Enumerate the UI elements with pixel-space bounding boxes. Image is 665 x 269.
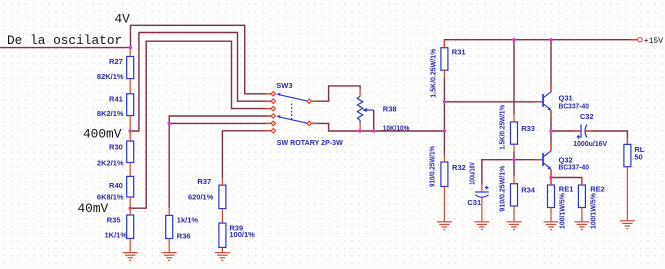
pin R34 bottom	[513, 206, 515, 213]
switch contact row5	[271, 121, 275, 125]
wire R33 feed from rail	[513, 40, 515, 115]
wire Q32 emitter to RE1 RE2	[550, 169, 552, 185]
junction Q32 emitter node	[549, 176, 552, 179]
switch contact common2	[307, 121, 311, 125]
arrow wiper pole2	[276, 115, 280, 118]
svg-text:6K8/1%: 6K8/1%	[97, 192, 124, 201]
switch contact row2	[271, 99, 275, 103]
pin SW3 row2 stub	[266, 100, 271, 102]
wire SW3 row6 to R37	[222, 131, 271, 178]
power rail +15V	[444, 40, 637, 48]
pin RE2 top	[581, 178, 583, 186]
pin R32 bottom	[443, 187, 445, 195]
junction 40mV node	[129, 207, 132, 210]
pin R36 bottom	[168, 239, 170, 253]
svg-text:620/1%: 620/1%	[188, 193, 214, 202]
wire R38 wiper to rail	[373, 110, 375, 131]
pin R31 top	[443, 40, 445, 48]
pin R38 top	[359, 89, 361, 96]
ground under RE2	[574, 222, 589, 230]
switch gang dashed link	[291, 104, 293, 121]
ground under R36	[162, 253, 177, 261]
terminal +15V	[638, 38, 642, 42]
svg-text:100/1W/5%: 100/1W/5%	[557, 193, 566, 229]
wire Q32 base with C31 branch	[482, 160, 542, 185]
wire Q31 emitter to Q32 collector	[550, 110, 552, 151]
svg-text:RE2: RE2	[590, 185, 605, 194]
svg-text:910/0.25W/1%: 910/0.25W/1%	[498, 165, 507, 211]
svg-text:R34: R34	[521, 186, 536, 195]
svg-text:R37: R37	[197, 177, 211, 186]
pin R27 bottom to R41	[129, 79, 131, 94]
svg-text:R31: R31	[452, 48, 466, 57]
potentiometer R38 zigzag	[357, 96, 362, 123]
pin SW3 row3 stub	[266, 108, 271, 110]
wire Q31 base	[444, 101, 542, 103]
junction rail to R31 R32 column	[443, 129, 446, 132]
pin C31 top	[481, 185, 483, 192]
svg-text:SW3: SW3	[276, 81, 292, 90]
wire R31 R32 column	[443, 78, 445, 155]
wire SW3 common2 to attenuator rail	[312, 123, 445, 131]
ground under R34	[507, 222, 522, 230]
pin R39 bottom	[221, 247, 223, 252]
wire SW3 row5 to R36 branch	[169, 122, 271, 124]
pin R35 top	[129, 208, 131, 215]
switch wiper pole1	[279, 95, 307, 101]
svg-text:RE1: RE1	[559, 185, 574, 194]
wire 4V tap to SW3 row1	[131, 25, 271, 94]
svg-text:82K/1%: 82K/1%	[97, 72, 124, 81]
resistor RE2	[578, 185, 585, 208]
svg-text:R33: R33	[521, 124, 535, 133]
switch contact common1	[307, 99, 311, 103]
svg-text:R35: R35	[107, 215, 121, 224]
svg-text:R32: R32	[452, 163, 466, 172]
wire RE1 to ground	[550, 215, 552, 222]
junction R31 bottom base node	[443, 100, 446, 103]
svg-text:R36: R36	[177, 231, 191, 240]
resistor R36	[166, 215, 173, 238]
switch contact row3	[271, 106, 275, 110]
pin R31 bottom	[443, 70, 445, 77]
svg-text:400mV: 400mV	[83, 127, 122, 142]
svg-text:C32: C32	[580, 112, 594, 121]
ground under R35	[123, 253, 138, 261]
ground under C31	[474, 222, 489, 230]
svg-text:BC337-40: BC337-40	[559, 162, 589, 171]
switch wiper pole2	[279, 117, 307, 123]
pin RE1 top	[550, 178, 552, 186]
pin RL bottom	[626, 167, 628, 174]
svg-text:R40: R40	[109, 181, 123, 190]
pin +15V stub	[630, 39, 637, 41]
wire RL to ground	[626, 174, 628, 221]
pin SW3 row4 stub	[266, 115, 271, 117]
resistor R37	[219, 185, 226, 209]
svg-text:1.5K/0.25W/1%: 1.5K/0.25W/1%	[498, 105, 507, 150]
pin R33 top	[513, 115, 515, 122]
R38 wiper arm	[366, 109, 374, 111]
svg-text:8K2/1%: 8K2/1%	[97, 109, 124, 118]
svg-text:100u/16V: 100u/16V	[467, 162, 476, 185]
pin R34 top	[513, 176, 515, 183]
svg-text:1k/1%: 1k/1%	[177, 215, 199, 224]
svg-text:1.5K/0.25W/1%: 1.5K/0.25W/1%	[428, 48, 437, 97]
pin Q31 collector stub	[550, 85, 552, 92]
svg-text:SW ROTARY 2P-3W: SW ROTARY 2P-3W	[277, 138, 344, 147]
wire C32 right to RL	[586, 131, 627, 144]
transistor Q31	[542, 92, 551, 111]
transistor Q32	[542, 151, 551, 170]
arrow R38 wiper	[362, 108, 366, 112]
wire oscillator input	[0, 47, 131, 49]
switch contact row1	[271, 92, 275, 96]
pin R30 top	[129, 131, 131, 141]
wire Q31 collector to rail	[550, 40, 552, 92]
pin C32 right	[586, 130, 593, 132]
capacitor C31	[475, 186, 489, 197]
pin R32 top	[443, 155, 445, 162]
pin R36 top	[168, 208, 170, 215]
resistor R32	[441, 162, 448, 187]
pin R41 bottom	[129, 116, 131, 131]
pin R27 top	[129, 48, 131, 56]
resistor RE1	[548, 185, 555, 208]
pin Q31 emitter stub	[550, 110, 552, 117]
wire C32 left	[551, 130, 580, 132]
pin Q32 emitter stub	[550, 169, 552, 176]
svg-text:R30: R30	[109, 142, 123, 151]
pin SW3 common2 stub	[312, 122, 317, 124]
svg-text:BC337-40: BC337-40	[559, 101, 589, 110]
wire R32 to ground	[443, 194, 445, 222]
wire emitter node to RE2	[551, 178, 582, 186]
pin R33 bottom	[513, 144, 515, 151]
svg-text:100/1%: 100/1%	[229, 230, 255, 239]
svg-text:R27: R27	[109, 57, 123, 66]
wire R34 to ground	[513, 213, 515, 221]
resistor R35	[127, 215, 134, 239]
ground under RE1	[544, 222, 559, 230]
svg-text:100/1W/5%: 100/1W/5%	[588, 193, 597, 229]
pin Q32 collector stub	[550, 144, 552, 151]
resistor R34	[511, 184, 518, 206]
pin SW3 row1 stub	[266, 93, 271, 95]
pin SW3 row5 stub	[266, 122, 271, 124]
pin Q32 base stub	[535, 159, 542, 161]
svg-text:4V: 4V	[115, 12, 131, 27]
resistor R39	[219, 223, 226, 247]
pin R38 bottom	[359, 123, 361, 131]
resistor R40	[127, 176, 134, 197]
junction R38 bottom	[358, 129, 361, 132]
svg-text:C31: C31	[467, 198, 481, 207]
svg-text:10K/10%: 10K/10%	[383, 123, 410, 132]
pin RL top	[626, 137, 628, 144]
pin C31 bottom to ground	[481, 198, 483, 222]
capacitor C32	[577, 124, 587, 138]
junction rail Q31 collector	[549, 38, 552, 41]
svg-text:2K2/1%: 2K2/1%	[97, 159, 124, 168]
resistor R30	[127, 141, 134, 163]
pin R37 top	[221, 178, 223, 185]
wire R33 to R34	[513, 152, 515, 177]
resistor R31	[441, 48, 448, 70]
resistor R33	[511, 122, 518, 144]
svg-text:De la oscilator: De la oscilator	[7, 33, 122, 48]
svg-text:R38: R38	[383, 104, 397, 113]
resistor R41	[127, 94, 134, 116]
junction R38 wiper on rail	[372, 129, 375, 132]
pin C32 left	[574, 130, 581, 132]
junction 400mV node	[129, 129, 132, 132]
arrow wiper pole1	[276, 93, 280, 96]
junction rail R33 feed	[512, 38, 515, 41]
wire SW3 row4 to R36	[169, 116, 271, 208]
pin SW3 common1 stub	[312, 100, 317, 102]
svg-text:40mV: 40mV	[78, 201, 109, 216]
svg-text:1K/1%: 1K/1%	[104, 230, 127, 239]
pin Q31 base stub	[535, 101, 542, 103]
pin R30 bottom to R40	[129, 163, 131, 177]
pin RE2 bottom	[581, 208, 583, 215]
switch contact row4	[271, 114, 275, 118]
resistor R27	[127, 57, 134, 79]
svg-text:50: 50	[634, 153, 642, 162]
switch contact row6	[271, 129, 275, 133]
pin R35 bottom	[129, 239, 131, 253]
svg-text:+15V: +15V	[644, 37, 663, 46]
wire SW3 common1 to R38 top	[312, 86, 360, 101]
junction row5 R36 node	[168, 122, 171, 125]
resistor RL	[624, 144, 631, 166]
ground under RL	[620, 221, 635, 229]
pin R40 bottom	[129, 197, 131, 208]
wire RE2 to ground	[581, 215, 583, 222]
junction 4V node	[129, 46, 132, 49]
wire 40mV tap to SW3 row3	[130, 41, 271, 208]
pin RE1 bottom	[550, 208, 552, 215]
svg-text:910/0.25W/1%: 910/0.25W/1%	[427, 146, 436, 187]
ground under R39	[215, 253, 230, 261]
wire 400mV tap to SW3 row2	[130, 33, 271, 132]
junction Q31 emitter C32 node	[549, 129, 552, 132]
svg-text:R41: R41	[109, 94, 123, 103]
svg-text:1000u/16V: 1000u/16V	[573, 139, 607, 148]
pin SW3 row6 stub	[266, 130, 271, 132]
pin R37 bottom to R39	[221, 209, 223, 224]
junction Q32 base node	[512, 158, 515, 161]
ground under R32	[437, 222, 452, 230]
